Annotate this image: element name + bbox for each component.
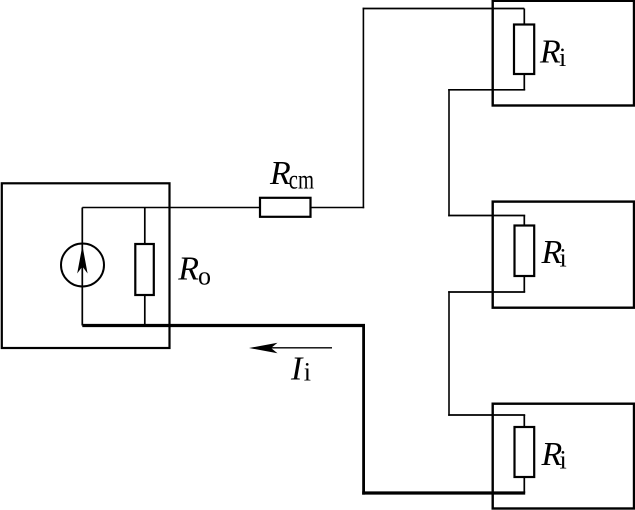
label Ii xyxy=(290,351,311,388)
wire (left vertical through current source) xyxy=(81,208,83,326)
svg-text:I: I xyxy=(290,351,304,388)
svg-text:cm: cm xyxy=(289,164,314,194)
load block (bottom) outline xyxy=(493,404,634,509)
current arrow Ii xyxy=(249,343,332,353)
wire (vertical up to top feed) xyxy=(362,8,364,209)
current source I xyxy=(61,244,104,287)
wire (thick return, bottom of source block) xyxy=(82,324,365,327)
wire (Ro bottom lead) xyxy=(144,295,146,326)
wire (Ri2 bottom horizontal) xyxy=(448,291,525,293)
svg-text:i: i xyxy=(304,358,311,387)
wire (inner top, source to Rcm left) xyxy=(82,207,260,209)
label Ri2 xyxy=(541,234,567,273)
wire (Ri1 bottom horizontal) xyxy=(448,89,525,91)
wire (Ri1 top lead) xyxy=(523,9,525,25)
wire (Ri3 top lead) xyxy=(523,415,525,427)
wire (thick bottom return to Ri3) xyxy=(362,491,525,494)
svg-text:o: o xyxy=(198,262,211,291)
source block outline xyxy=(2,183,170,348)
wire (Rcm right to corner) xyxy=(311,207,365,209)
resistor Ri3 xyxy=(515,427,535,477)
wire (Ri3 bottom lead) xyxy=(523,477,525,493)
svg-text:i: i xyxy=(560,244,567,273)
wire (Ri1 bottom lead) xyxy=(523,74,525,90)
label Ri1 xyxy=(539,34,566,73)
wire (thick vertical return) xyxy=(362,324,365,495)
label Ro xyxy=(177,251,211,291)
resistor Rcm xyxy=(260,198,311,217)
svg-text:i: i xyxy=(560,446,567,475)
svg-text:R: R xyxy=(539,34,561,71)
svg-text:R: R xyxy=(269,155,291,192)
label Rcm xyxy=(269,155,314,194)
svg-text:R: R xyxy=(177,251,199,288)
label Ri3 xyxy=(541,436,567,475)
wire (vertical link box1 to box2) xyxy=(448,89,450,216)
resistor Ro xyxy=(135,244,154,295)
wire (vertical link box2 to box3) xyxy=(448,291,450,416)
wire (to Ri2 top) xyxy=(448,215,525,217)
svg-text:i: i xyxy=(559,43,566,72)
wire (Ri2 top lead) xyxy=(523,216,525,226)
resistor Ri1 xyxy=(514,25,534,75)
wire (Ri2 bottom lead) xyxy=(523,276,525,292)
wire (top feed to Ri1) xyxy=(363,8,525,10)
load block (middle) outline xyxy=(493,202,634,308)
wire (to Ri3 top) xyxy=(448,414,525,416)
load block (top) outline xyxy=(493,1,634,106)
resistor Ri2 xyxy=(515,226,535,277)
wire (Ro top lead) xyxy=(144,208,146,245)
